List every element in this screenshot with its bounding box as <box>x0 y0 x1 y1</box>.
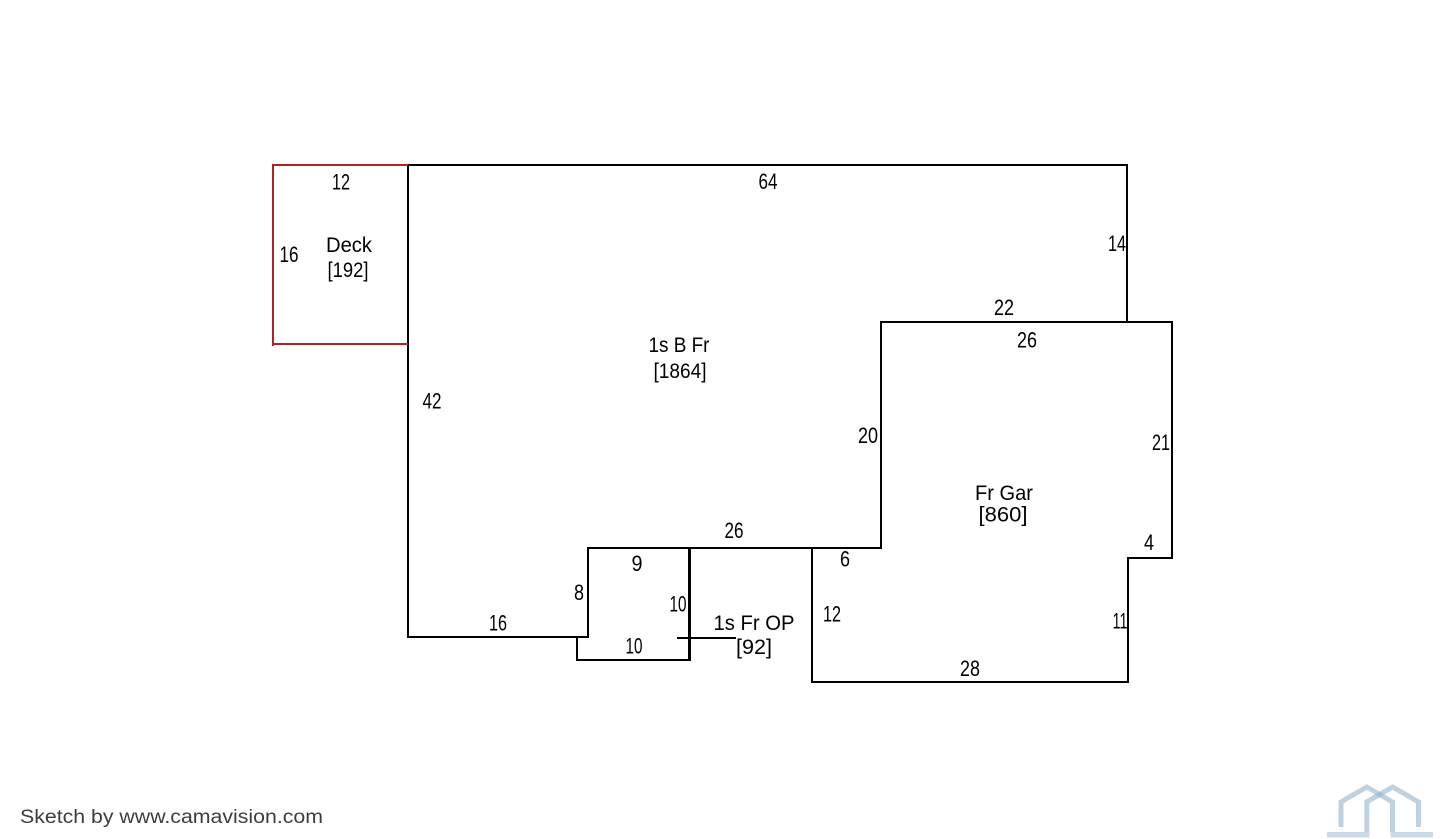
svg-text:21: 21 <box>1152 430 1170 455</box>
svg-text:20: 20 <box>858 423 878 448</box>
svg-text:[92]: [92] <box>736 636 772 659</box>
svg-text:16: 16 <box>489 611 507 636</box>
wire deck top wall 12 <box>272 164 408 166</box>
wire right wall 14 <box>1126 164 1128 323</box>
svg-text:4: 4 <box>1144 530 1154 555</box>
svg-text:42: 42 <box>423 389 442 414</box>
logo right house outline <box>1367 787 1419 832</box>
wire top wall 64 <box>407 164 1128 166</box>
wire porch right wall 10 <box>688 547 691 661</box>
wire garage top wall 26 <box>880 321 1173 323</box>
logo right house floor bar <box>1391 832 1434 838</box>
wire garage lower right wall 11 <box>1127 557 1129 683</box>
wire porch step wall <box>576 636 578 661</box>
wire inner wall 20 <box>880 321 882 549</box>
logo left house outline <box>1341 787 1393 832</box>
wire porch left wall 8 <box>587 547 589 638</box>
svg-text:Deck: Deck <box>326 234 372 257</box>
wire porch bottom wall 10 <box>576 659 691 661</box>
svg-text:14: 14 <box>1108 231 1126 256</box>
svg-text:26: 26 <box>725 518 744 543</box>
svg-text:64: 64 <box>759 169 778 194</box>
svg-text:Sketch by www.camavision.com: Sketch by www.camavision.com <box>20 807 323 828</box>
logo left house floor bar <box>1327 832 1370 838</box>
wire garage right wall 21 <box>1171 321 1173 559</box>
svg-text:22: 22 <box>994 295 1014 320</box>
svg-text:1s Fr OP: 1s Fr OP <box>714 612 795 635</box>
svg-text:16: 16 <box>280 242 299 267</box>
wire garage left lower wall 12 <box>811 547 813 683</box>
wire leader line 1s Fr OP <box>677 637 736 639</box>
svg-text:1s B Fr: 1s B Fr <box>649 334 710 357</box>
svg-text:11: 11 <box>1113 609 1128 634</box>
svg-text:28: 28 <box>960 656 980 681</box>
svg-text:26: 26 <box>1017 328 1037 353</box>
wire garage bottom wall 28 <box>811 681 1129 683</box>
svg-text:[192]: [192] <box>328 259 369 282</box>
svg-text:12: 12 <box>823 602 841 627</box>
svg-text:6: 6 <box>840 547 850 572</box>
svg-text:8: 8 <box>574 580 584 605</box>
wire bottom wall 16 <box>407 636 589 638</box>
svg-text:[860]: [860] <box>979 504 1028 527</box>
svg-text:10: 10 <box>626 634 643 659</box>
svg-text:10: 10 <box>670 592 687 617</box>
wire deck left wall 16 <box>272 164 274 346</box>
svg-text:[1864]: [1864] <box>654 360 707 383</box>
wire deck bottom wall <box>272 343 408 345</box>
svg-text:Fr Gar: Fr Gar <box>975 482 1033 505</box>
svg-text:12: 12 <box>332 170 350 195</box>
wire garage step wall 4 <box>1127 557 1173 559</box>
svg-text:9: 9 <box>632 551 643 576</box>
wire middle wall 26 <box>589 547 882 549</box>
wire left wall 42 <box>407 164 409 638</box>
